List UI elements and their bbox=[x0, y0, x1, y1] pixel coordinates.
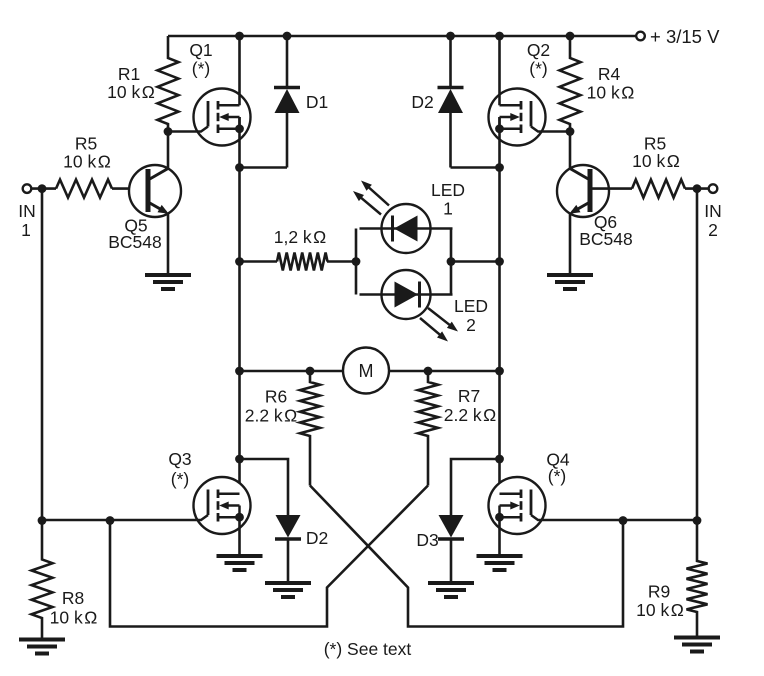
transistor Q5 bbox=[129, 165, 181, 217]
ground Q5 emitter bbox=[145, 275, 191, 289]
LED LED1 bbox=[360, 204, 453, 253]
svg-text:10 kΩ: 10 kΩ bbox=[636, 600, 684, 620]
wire IN1 rail down bbox=[41, 189, 44, 521]
svg-text:(*): (*) bbox=[529, 59, 547, 79]
svg-text:2: 2 bbox=[466, 315, 476, 335]
wire D1 return bbox=[240, 166, 288, 169]
node right rail / LED bracket bbox=[495, 257, 504, 266]
node IN1 junction bbox=[38, 184, 47, 193]
svg-text:R8: R8 bbox=[62, 588, 84, 608]
svg-text:R1: R1 bbox=[118, 64, 140, 84]
svg-text:Q3: Q3 bbox=[168, 449, 191, 469]
node top rail / Q2 drain bbox=[495, 32, 504, 41]
wire motor left bbox=[240, 370, 344, 373]
wire R6 cross to Q4 gate bbox=[310, 486, 623, 627]
wire Q1 drain to top rail bbox=[238, 36, 241, 105]
node left rail / Q3 drain / D2 branch bbox=[235, 455, 244, 464]
node top rail / R4 bbox=[566, 32, 575, 41]
svg-text:(*): (*) bbox=[548, 466, 566, 486]
ground D3 bbox=[428, 583, 474, 597]
wire Q6 emitter down bbox=[569, 214, 572, 274]
svg-text:R4: R4 bbox=[598, 64, 621, 84]
svg-text:D2: D2 bbox=[306, 528, 328, 548]
svg-text:LED: LED bbox=[454, 296, 488, 316]
wire D2 anode bbox=[449, 36, 452, 87]
node Q3 gate / cross wire bbox=[106, 516, 115, 525]
svg-text:R9: R9 bbox=[648, 582, 670, 602]
wire IN2 rail down bbox=[696, 189, 699, 521]
node R4/Q2 gate/Q6 collector bbox=[566, 127, 575, 136]
diode D1 bbox=[274, 88, 300, 114]
node right rail / Q4 drain / D3 branch bbox=[495, 455, 504, 464]
terminal IN 1 bbox=[23, 184, 32, 193]
diode D2 (upper) bbox=[438, 88, 464, 114]
ground Q6 emitter bbox=[547, 275, 593, 289]
svg-text:IN: IN bbox=[704, 201, 722, 221]
resistor R9 bbox=[687, 521, 708, 637]
resistor R4 bbox=[560, 36, 581, 132]
svg-text:1: 1 bbox=[443, 199, 453, 219]
resistor R7 bbox=[418, 371, 438, 486]
wire LED bracket to right rail bbox=[451, 260, 500, 263]
node motor wire / R6 bbox=[306, 367, 315, 376]
wire 1,2 k to LED bracket bbox=[327, 260, 356, 263]
transistor Q6 bbox=[557, 165, 609, 217]
wire D3 to ground bbox=[450, 539, 453, 583]
LED1 light arrow b bbox=[353, 191, 381, 215]
wire rail to D2 (lower) bbox=[240, 459, 289, 515]
wire motor right bbox=[389, 370, 500, 373]
svg-text:R7: R7 bbox=[458, 386, 480, 406]
resistor 1,2 kOhm bbox=[277, 253, 328, 271]
resistor R5 (left) bbox=[56, 180, 112, 198]
node LED bracket right bbox=[447, 257, 456, 266]
svg-text:(*): (*) bbox=[192, 59, 210, 79]
resistor R5 (right) bbox=[632, 180, 685, 198]
svg-text:+ 3/15 V: + 3/15 V bbox=[650, 26, 720, 47]
svg-text:2.2 kΩ: 2.2 kΩ bbox=[444, 405, 497, 425]
diode D3 bbox=[438, 515, 464, 539]
svg-text:1: 1 bbox=[21, 220, 31, 240]
wire Q6 collector up bbox=[569, 132, 572, 169]
wire Q5 collector up bbox=[167, 132, 170, 169]
wire left centre rail (Q1 source to Q3 drain) bbox=[238, 117, 241, 494]
LED1 light arrow a bbox=[361, 181, 389, 206]
wire right centre rail (Q2 source to Q4 drain) bbox=[498, 117, 501, 494]
transistor Q3 (MOSFET) bbox=[42, 477, 251, 534]
svg-text:R5: R5 bbox=[75, 134, 97, 154]
svg-text:D3: D3 bbox=[416, 530, 438, 550]
node R1/Q1 gate/Q5 collector bbox=[164, 127, 173, 136]
wire R7 cross to Q3 gate bbox=[110, 486, 428, 627]
node right rail / D2 return bbox=[495, 163, 504, 172]
terminal + 3/15 V bbox=[636, 32, 645, 41]
transistor Q4 (MOSFET) bbox=[489, 477, 698, 534]
ground D2 (lower) bbox=[265, 583, 311, 597]
wire D2 (lower) to ground bbox=[287, 539, 290, 583]
svg-text:(*): (*) bbox=[171, 469, 189, 489]
svg-text:D1: D1 bbox=[306, 92, 328, 112]
node left rail / motor bbox=[235, 367, 244, 376]
svg-text:Q1: Q1 bbox=[189, 40, 212, 60]
resistor R6 bbox=[300, 371, 320, 486]
ground R8 bbox=[19, 640, 65, 654]
wire top supply rail bbox=[168, 35, 636, 38]
svg-text:IN: IN bbox=[18, 201, 36, 221]
wire rail to D3 bbox=[451, 459, 500, 515]
node left rail / D1 return bbox=[235, 163, 244, 172]
svg-text:BC548: BC548 bbox=[579, 229, 633, 249]
wire Q5 emitter down bbox=[167, 214, 170, 274]
node right rail / motor bbox=[495, 367, 504, 376]
node motor wire / R7 bbox=[424, 367, 433, 376]
svg-text:(*) See text: (*) See text bbox=[324, 639, 412, 659]
svg-text:R6: R6 bbox=[265, 387, 287, 407]
node Q4 gate / cross wire bbox=[619, 516, 628, 525]
ground Q4 source bbox=[477, 556, 523, 570]
node IN2 junction bbox=[693, 184, 702, 193]
wire R5 to Q5 base bbox=[112, 187, 148, 190]
LED2 light arrow b bbox=[420, 318, 448, 342]
node top rail / D1 bbox=[283, 32, 292, 41]
wire Q2 drain to top rail bbox=[498, 36, 501, 105]
node top rail / Q1 drain bbox=[235, 32, 244, 41]
wire rail to 1,2 k bbox=[240, 260, 278, 263]
svg-text:Q2: Q2 bbox=[527, 40, 550, 60]
svg-text:D2: D2 bbox=[411, 92, 433, 112]
svg-text:M: M bbox=[359, 361, 374, 381]
node left rail / 1,2 k bbox=[235, 257, 244, 266]
node Q4 gate / IN2 rail bbox=[693, 516, 702, 525]
svg-text:10 kΩ: 10 kΩ bbox=[107, 82, 155, 102]
ground Q3 source bbox=[217, 556, 263, 570]
wire Q4 source down bbox=[498, 517, 501, 554]
LED LED2 bbox=[360, 270, 453, 319]
svg-text:1,2 kΩ: 1,2 kΩ bbox=[274, 227, 327, 247]
transistor Q2 (MOSFET) bbox=[489, 89, 571, 146]
wire LED bracket left bbox=[355, 229, 358, 295]
svg-text:10 kΩ: 10 kΩ bbox=[50, 608, 98, 628]
svg-text:10 kΩ: 10 kΩ bbox=[63, 152, 111, 172]
wire Q6 base to R5 bbox=[590, 187, 632, 190]
wire IN2 to R5 bbox=[685, 187, 709, 190]
svg-text:BC548: BC548 bbox=[108, 232, 162, 252]
resistor R1 bbox=[158, 36, 179, 132]
motor M bbox=[343, 348, 389, 394]
terminal IN 2 bbox=[709, 184, 718, 193]
wire D2 return bbox=[451, 166, 500, 169]
wire IN1 to R5 bbox=[32, 187, 57, 190]
svg-text:2.2 kΩ: 2.2 kΩ bbox=[245, 406, 298, 426]
node Q3 gate / IN1 rail bbox=[38, 516, 47, 525]
node LED bracket left bbox=[352, 257, 361, 266]
svg-text:10 kΩ: 10 kΩ bbox=[587, 83, 635, 103]
wire Q3 source down bbox=[238, 517, 241, 554]
transistor Q1 (MOSFET) bbox=[168, 89, 251, 146]
ground R9 bbox=[674, 638, 720, 652]
resistor R8 bbox=[32, 521, 53, 639]
LED2 light arrow a bbox=[428, 308, 458, 332]
svg-text:10 kΩ: 10 kΩ bbox=[632, 151, 680, 171]
svg-text:LED: LED bbox=[431, 180, 465, 200]
wire D2 cathode bbox=[449, 113, 452, 168]
wire D1 anode bbox=[286, 36, 289, 87]
diode D2 (lower) bbox=[275, 515, 301, 539]
node top rail / D2 bbox=[446, 32, 455, 41]
wire D1 cathode bbox=[286, 113, 289, 168]
svg-text:2: 2 bbox=[708, 220, 718, 240]
wire LED bracket right bbox=[450, 229, 453, 295]
